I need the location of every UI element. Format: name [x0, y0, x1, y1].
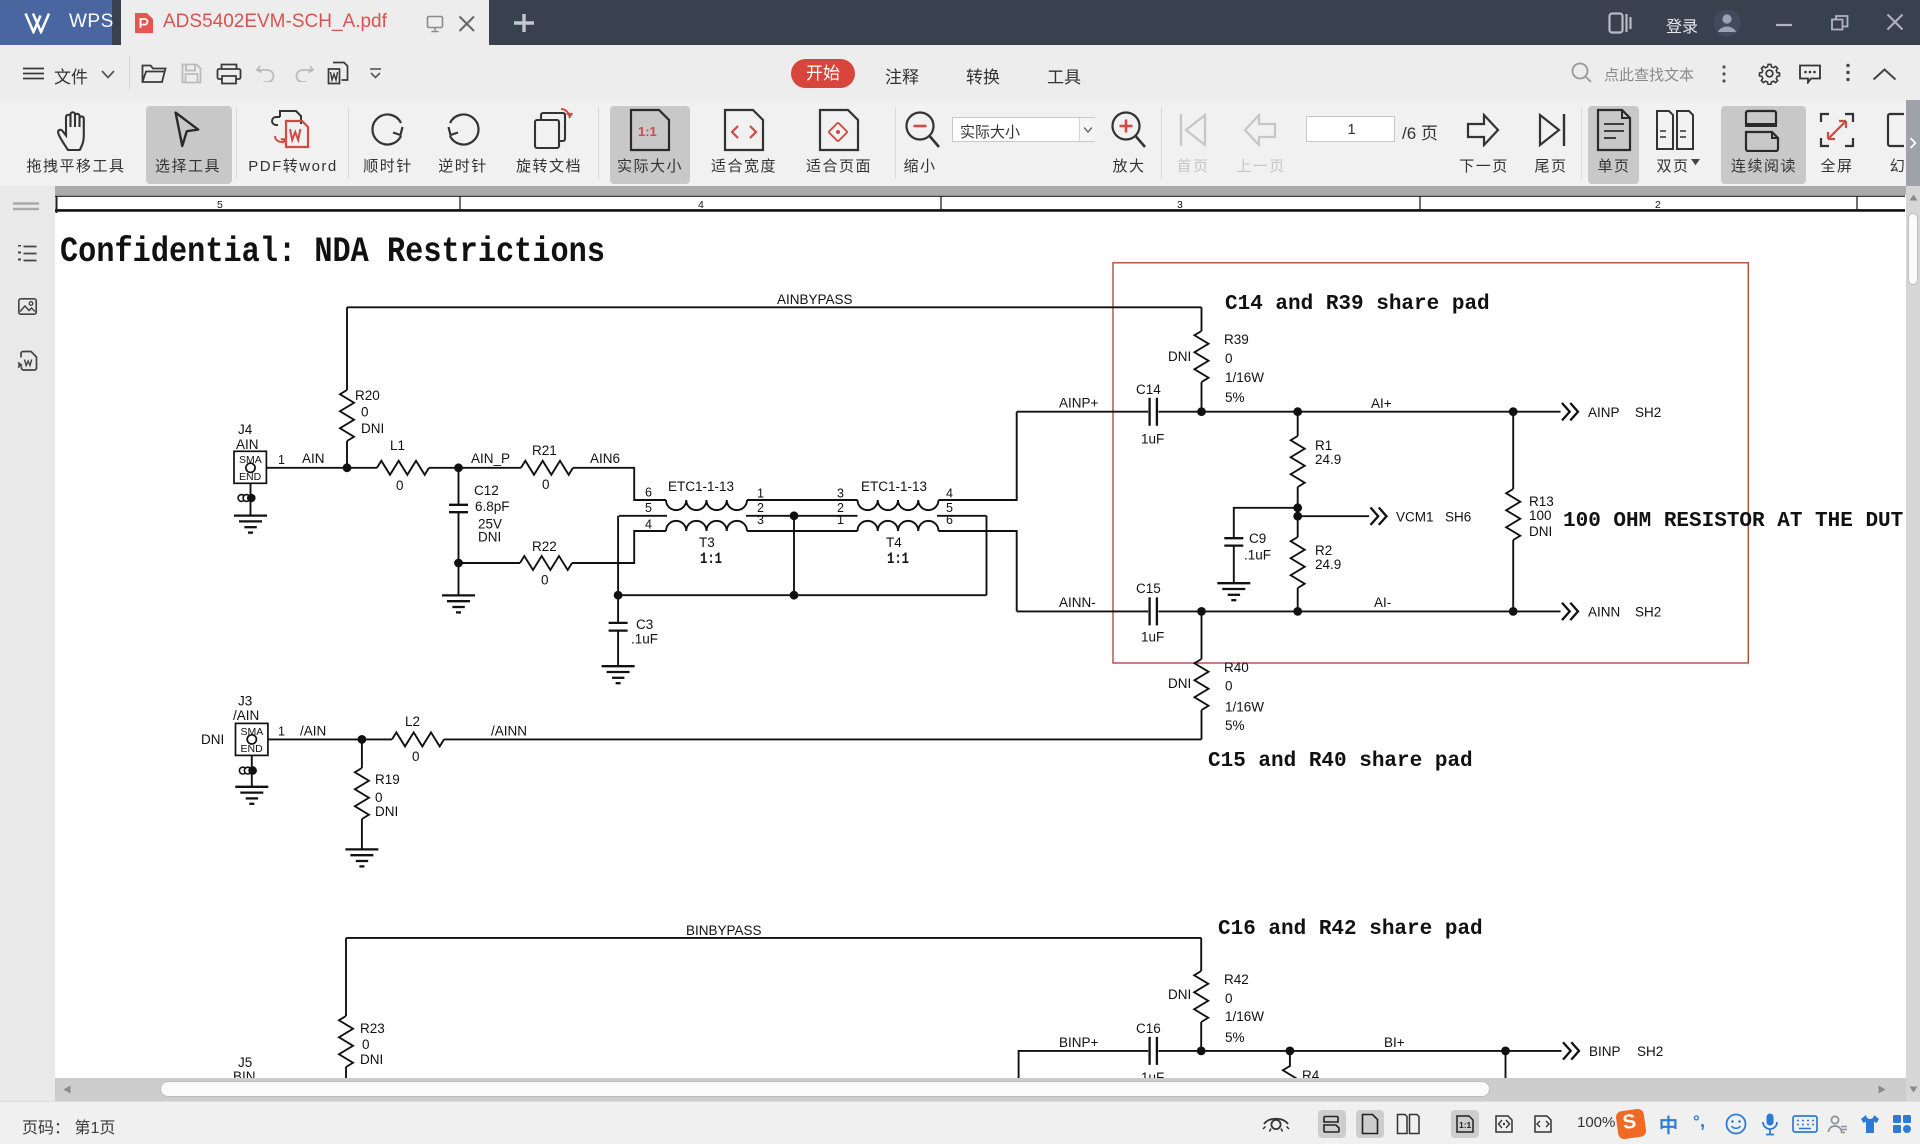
svg-text:J5: J5: [238, 1055, 252, 1070]
resistor R39: [1195, 331, 1209, 382]
svg-text:AINP: AINP: [1588, 405, 1620, 420]
svg-text:BIN: BIN: [233, 1069, 256, 1078]
svg-text:2: 2: [1655, 199, 1661, 211]
ground J4: [234, 516, 267, 533]
svg-text:1uF: 1uF: [1141, 630, 1164, 645]
svg-text:VCM1: VCM1: [1396, 510, 1434, 525]
inductor L2 (0 ohm): [392, 732, 444, 746]
capacitor C12: [449, 468, 510, 563]
hand tool: [56, 110, 96, 152]
svg-text:.1uF: .1uF: [1244, 548, 1271, 563]
svg-text:L1: L1: [390, 438, 405, 453]
svg-text:5: 5: [217, 199, 223, 211]
sogou: [1615, 1108, 1647, 1140]
svg-text:AINP+: AINP+: [1059, 396, 1099, 411]
svg-text:0: 0: [1225, 351, 1233, 366]
svg-text:T4: T4: [886, 535, 902, 550]
svg-text:C15: C15: [1136, 581, 1161, 596]
svg-text:R40: R40: [1224, 660, 1249, 675]
svg-text:100 OHM RESISTOR AT THE DUT: 100 OHM RESISTOR AT THE DUT: [1563, 510, 1903, 533]
resistor R22: [459, 556, 573, 570]
svg-text:ETC1-1-13: ETC1-1-13: [861, 479, 927, 494]
wire R42 to BINP+: [1200, 1022, 1202, 1051]
off-page arrow AINN: [1562, 603, 1578, 620]
svg-text:100: 100: [1529, 508, 1552, 523]
ground R19: [345, 849, 378, 866]
right icons: [1608, 12, 1632, 34]
svg-text:1: 1: [757, 487, 764, 501]
svg-text:0: 0: [375, 790, 383, 805]
wire T4 pin4 up to AINP+: [939, 412, 1017, 500]
wire T3 pin5 down to gnd rail: [617, 516, 619, 595]
svg-text:4: 4: [946, 487, 953, 501]
resistor R2: [1297, 516, 1299, 537]
junction BINP arrow: [1501, 1047, 1510, 1056]
resistor R19: [361, 739, 363, 768]
svg-text:SH2: SH2: [1635, 405, 1661, 420]
transformer T3 ETC1-1-13: [619, 479, 794, 568]
svg-text:R4: R4: [1302, 1068, 1320, 1078]
svg-text:R20: R20: [355, 388, 380, 403]
capacitor C3: [609, 595, 658, 666]
junction C16/R42: [1197, 1047, 1206, 1056]
separators: [236, 107, 237, 179]
svg-text:0: 0: [541, 573, 549, 588]
svg-text:T3: T3: [699, 535, 715, 550]
ground C12: [442, 595, 475, 612]
svg-text:0: 0: [362, 1037, 370, 1052]
svg-text:DNI: DNI: [201, 732, 224, 747]
svg-text:1:1: 1:1: [1459, 1120, 1472, 1130]
continuous (active): [1742, 108, 1784, 152]
page input: [1306, 116, 1395, 142]
svg-text:5: 5: [645, 501, 652, 515]
svg-text:C16 and R42 share pad: C16 and R42 share pad: [1218, 918, 1483, 941]
svg-text:SH2: SH2: [1637, 1044, 1663, 1059]
wire AINN arrow: [1513, 610, 1560, 612]
svg-text:3: 3: [757, 513, 764, 527]
svg-text:5%: 5%: [1225, 390, 1245, 405]
junction rail / C3: [614, 591, 623, 600]
junction AINN arrow/R13: [1509, 607, 1518, 616]
svg-text:R22: R22: [532, 539, 557, 554]
svg-text:DNI: DNI: [1168, 349, 1191, 364]
gear: [1758, 62, 1781, 85]
fit page: [818, 108, 860, 152]
svg-text:SH6: SH6: [1445, 510, 1471, 525]
svg-text:R21: R21: [532, 443, 557, 458]
svg-text:Confidential: NDA Restrictions: Confidential: NDA Restrictions: [60, 232, 605, 272]
svg-text:AIN: AIN: [302, 451, 325, 466]
expand strip: [1906, 100, 1920, 186]
svg-text:BINBYPASS: BINBYPASS: [686, 923, 762, 938]
svg-text:0: 0: [1225, 991, 1233, 1006]
prev page (grayed): [1242, 113, 1278, 147]
partial 幻灯片: [1886, 112, 1906, 148]
junction AIN_P / C12: [454, 463, 463, 472]
wire C12 to ground: [458, 563, 460, 595]
wire AINN- rail: [1017, 610, 1513, 612]
svg-text:DNI: DNI: [1529, 524, 1552, 539]
wire R20 bottom to AIN node: [346, 441, 348, 468]
junction R4/BI+: [1286, 1047, 1295, 1056]
svg-text:1:1: 1:1: [887, 550, 909, 568]
resistor R23: [339, 1016, 353, 1067]
wire R22 to T3 pin4: [572, 531, 666, 563]
svg-text:1:1: 1:1: [700, 550, 722, 568]
center tabs: [791, 59, 855, 88]
wire R2 to AI-: [1297, 588, 1299, 611]
svg-text:24.9: 24.9: [1315, 557, 1341, 572]
svg-text:AIN: AIN: [236, 437, 259, 452]
svg-text:DNI: DNI: [375, 804, 398, 819]
svg-text:1: 1: [278, 453, 285, 467]
svg-text:C9: C9: [1249, 531, 1266, 546]
svg-text:AI+: AI+: [1371, 396, 1392, 411]
svg-text:0: 0: [396, 478, 404, 493]
fullscreen: [1819, 112, 1855, 148]
off-page arrow AINP: [1562, 403, 1578, 420]
undo grayed: [256, 65, 275, 82]
capacitor C9: [1224, 531, 1271, 583]
active backgrounds: [146, 106, 232, 184]
junction AIN/R20/L1: [343, 463, 352, 472]
ground rail under transformers: [618, 594, 986, 596]
svg-text:AIN6: AIN6: [590, 451, 620, 466]
wire AINP arrow: [1513, 411, 1560, 413]
svg-text:1: 1: [837, 513, 844, 527]
svg-text:5%: 5%: [1225, 718, 1245, 733]
zoom out: [903, 110, 943, 152]
next page: [1465, 113, 1501, 147]
wire AINBYPASS horizontal: [347, 306, 1202, 308]
junction C14/R39/AI+: [1197, 407, 1206, 416]
wire R39 to AINP+: [1201, 382, 1203, 412]
svg-text:24.9: 24.9: [1315, 452, 1341, 467]
svg-text:DNI: DNI: [1168, 987, 1191, 1002]
fit width: [723, 108, 765, 152]
last page: [1537, 112, 1567, 148]
J4 shield pads: [238, 483, 256, 515]
junction R1/C9: [1293, 503, 1302, 512]
wire T3 pin1 to T4 pin3: [747, 499, 858, 501]
double page: [1655, 109, 1695, 151]
svg-text:L2: L2: [405, 714, 420, 729]
wire T4 pin5 down to rail: [986, 516, 988, 595]
transformer T4 ETC1-1-13: [794, 479, 987, 568]
resistor R13: [1512, 412, 1514, 489]
wire BINP+ rail: [1019, 1051, 1506, 1078]
inductor L1 (0 ohm): [377, 461, 429, 475]
junction VCM1/R2: [1293, 512, 1302, 521]
wire /AINN to R40: [444, 738, 1202, 740]
svg-text:DNI: DNI: [361, 421, 384, 436]
wire R40 from C15 node down: [1201, 611, 1203, 659]
sheet zone border strip: [55, 196, 1905, 213]
rotate doc: [527, 108, 573, 152]
svg-text:R39: R39: [1224, 332, 1249, 347]
svg-text:0: 0: [361, 405, 369, 420]
wire T4 pin6 down to AINN-: [939, 531, 1017, 611]
first page (grayed): [1178, 112, 1208, 148]
wire T3 pin3 to T4 pin1: [747, 530, 858, 532]
wire VCM1 arrow: [1298, 515, 1369, 517]
svg-text:4: 4: [645, 518, 652, 532]
wire center tap down: [793, 516, 795, 595]
resistor R20: [340, 390, 354, 441]
svg-text:C15 and R40 share pad: C15 and R40 share pad: [1208, 750, 1473, 773]
resistor R42: [1194, 971, 1208, 1022]
svg-text:1/16W: 1/16W: [1225, 370, 1264, 385]
svg-text:1uF: 1uF: [1141, 432, 1164, 447]
save grayed: [181, 63, 202, 84]
svg-text:DNI: DNI: [478, 530, 501, 545]
wire AIN from J4 to node: [266, 467, 377, 469]
svg-text:/AIN: /AIN: [233, 708, 259, 723]
svg-text:DNI: DNI: [360, 1052, 383, 1067]
svg-text:AI-: AI-: [1374, 595, 1391, 610]
capacitor C15: [1136, 581, 1164, 645]
svg-text:1/16W: 1/16W: [1225, 700, 1264, 715]
wire L1 to AIN_P node and on to R21: [429, 467, 521, 469]
wire R42 drop from BINBYPASS: [1200, 938, 1202, 971]
wire C9 branch: [1234, 508, 1298, 538]
svg-text:6: 6: [946, 513, 953, 527]
eye: [1261, 1114, 1291, 1134]
wire BINP vertical stub: [1505, 1051, 1507, 1078]
svg-text:R23: R23: [360, 1021, 385, 1036]
wire BINBYPASS left drop to R23: [345, 938, 347, 1016]
select tool (active): [172, 109, 204, 151]
cw: [369, 112, 407, 148]
junction C12/R22: [454, 559, 463, 568]
wire BINBYPASS horizontal: [346, 937, 1201, 939]
svg-text:6: 6: [645, 486, 652, 500]
svg-text:BI+: BI+: [1384, 1035, 1405, 1050]
svg-text:SH2: SH2: [1635, 605, 1661, 620]
junction R2/AI-: [1293, 607, 1302, 616]
svg-text:BINP: BINP: [1589, 1044, 1621, 1059]
J3 shield pads: [239, 755, 256, 786]
svg-text:AINBYPASS: AINBYPASS: [777, 292, 853, 307]
zoom in: [1109, 110, 1149, 152]
single page (active): [1596, 108, 1632, 152]
svg-text:C3: C3: [636, 617, 653, 632]
svg-text:R2: R2: [1315, 543, 1332, 558]
svg-text:R42: R42: [1224, 972, 1249, 987]
off-page arrow BINP: [1563, 1042, 1579, 1059]
svg-text:AIN_P: AIN_P: [471, 451, 510, 466]
redo grayed: [295, 65, 314, 82]
connector J4 SMA: [234, 422, 266, 483]
resistor R40: [1195, 659, 1209, 710]
resistor R4 (partial): [1283, 1051, 1297, 1079]
svg-text:/AIN: /AIN: [300, 724, 326, 739]
svg-text:5%: 5%: [1225, 1030, 1245, 1045]
resistor R21: [521, 461, 573, 475]
wire R19 to ground: [361, 819, 363, 849]
svg-text:AINN-: AINN-: [1059, 595, 1096, 610]
capacitor C16: [1136, 1021, 1164, 1085]
1:1 actual size (active): [629, 108, 671, 152]
ground C9: [1217, 583, 1250, 600]
junction /AIN / R19: [358, 735, 367, 744]
junction center tap / rail: [790, 591, 799, 600]
svg-text:1uF: 1uF: [1141, 1070, 1164, 1078]
wire AINBYPASS left drop to R20: [346, 307, 348, 390]
svg-text:3: 3: [837, 487, 844, 501]
ground C3: [602, 666, 635, 683]
svg-text:R13: R13: [1529, 494, 1554, 509]
svg-text:C16: C16: [1136, 1021, 1161, 1036]
capacitor C14: [1136, 382, 1164, 447]
connector J3 SMA: [201, 694, 268, 756]
svg-text:C12: C12: [474, 483, 499, 498]
wire AIN6 to T3 pin6: [573, 468, 666, 500]
off-page arrow VCM1: [1371, 508, 1387, 525]
svg-text:ETC1-1-13: ETC1-1-13: [668, 479, 734, 494]
svg-text:0: 0: [542, 477, 550, 492]
junction C15/R40: [1197, 607, 1206, 616]
ccw: [444, 112, 482, 148]
red annotation box: [1113, 263, 1748, 663]
right side: [1571, 62, 1593, 84]
svg-text:/AINN: /AINN: [491, 724, 527, 739]
svg-text:J3: J3: [238, 694, 252, 709]
svg-text:R1: R1: [1315, 438, 1332, 453]
folder: [141, 63, 168, 84]
pdf to word: [270, 107, 316, 153]
comment: [1798, 63, 1822, 84]
combo: [952, 117, 1095, 142]
wire AINP+ rail: [1017, 411, 1513, 413]
resistor R1: [1297, 412, 1299, 436]
svg-text:0: 0: [412, 749, 420, 764]
wire R1 to VCM node: [1297, 487, 1299, 516]
junction T3.2/T4.2 center tap: [790, 511, 799, 520]
svg-text:J4: J4: [238, 422, 253, 437]
svg-text:R19: R19: [375, 772, 400, 787]
svg-text:C14 and R39 share pad: C14 and R39 share pad: [1225, 293, 1490, 316]
svg-text:.1uF: .1uF: [631, 632, 658, 647]
svg-text:C14: C14: [1136, 382, 1161, 397]
svg-text:BINP+: BINP+: [1059, 1035, 1099, 1050]
svg-text:0: 0: [1225, 679, 1233, 694]
svg-text:1: 1: [278, 725, 285, 739]
junction AINP arrow/R13: [1509, 407, 1518, 416]
new tab +: [513, 13, 535, 33]
svg-text:3: 3: [1177, 199, 1183, 211]
svg-text:AINN: AINN: [1588, 605, 1620, 620]
wire /AIN from J3: [268, 738, 392, 740]
ground J3: [235, 787, 268, 804]
svg-text:1:1: 1:1: [638, 124, 657, 139]
wire BINP arrow: [1506, 1050, 1562, 1052]
svg-text:6.8pF: 6.8pF: [475, 499, 510, 514]
wire R40 bottom to /AINN: [1201, 710, 1203, 739]
print: [216, 63, 242, 85]
svg-text:1/16W: 1/16W: [1225, 1009, 1264, 1024]
junction R1/AI+: [1293, 407, 1302, 416]
svg-text:DNI: DNI: [1168, 676, 1191, 691]
svg-text:4: 4: [698, 199, 704, 211]
wire R39 top from AINBYPASS: [1201, 307, 1203, 331]
to-word icon: [327, 61, 349, 85]
